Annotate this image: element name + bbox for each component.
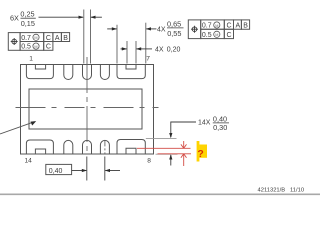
- svg-text:0.7: 0.7: [21, 35, 31, 42]
- pin label 1: [29, 56, 33, 63]
- pin label 8: [147, 158, 151, 165]
- svg-text:B: B: [243, 23, 248, 30]
- svg-text:14: 14: [25, 158, 33, 165]
- svg-text:A: A: [55, 35, 60, 42]
- svg-text:A: A: [236, 23, 241, 30]
- pin 4: [100, 65, 109, 80]
- svg-text:4211321/B: 4211321/B: [258, 187, 286, 193]
- red annotation lines: [137, 141, 191, 166]
- pin 2: [64, 65, 73, 80]
- svg-text:6X: 6X: [10, 14, 19, 23]
- bottom border line: [0, 193, 320, 195]
- svg-text:?: ?: [197, 148, 203, 160]
- package outline: [21, 65, 154, 155]
- pin 8 pad: [117, 140, 145, 155]
- pin 13: [64, 140, 73, 154]
- svg-text:B: B: [63, 35, 68, 42]
- svg-text:0,40: 0,40: [213, 114, 227, 123]
- svg-text:11/10: 11/10: [290, 187, 304, 193]
- svg-text:4X: 4X: [157, 26, 166, 33]
- svg-text:7: 7: [146, 56, 150, 63]
- horizontal center line: [16, 107, 159, 109]
- GD&T frame left: [8, 33, 69, 51]
- svg-text:M: M: [215, 33, 218, 37]
- dimension 6X 0,25/0,15: [10, 9, 102, 63]
- pin 12: [83, 140, 92, 154]
- pin label 7: [146, 56, 150, 63]
- pitch center line x=105.5: [104, 140, 106, 180]
- yellow highlight with question mark: [197, 141, 207, 162]
- svg-text:0,65: 0,65: [167, 19, 181, 28]
- svg-text:4X: 4X: [155, 47, 164, 54]
- svg-text:C: C: [227, 23, 232, 30]
- svg-text:M: M: [215, 24, 218, 28]
- svg-text:14X: 14X: [198, 120, 211, 127]
- dimension 4X 0,20: [121, 41, 181, 64]
- svg-text:M: M: [34, 45, 37, 49]
- pin 11: [100, 140, 109, 154]
- svg-text:0.5: 0.5: [202, 32, 212, 39]
- svg-text:0,20: 0,20: [167, 47, 181, 54]
- thermal pad: [29, 89, 142, 129]
- pin 14 pad: [26, 140, 53, 154]
- dimension 0,40 pitch: [46, 164, 120, 174]
- svg-text:0,15: 0,15: [21, 19, 35, 28]
- dimension 14X 0,40/0,30: [146, 114, 229, 165]
- svg-text:0.7: 0.7: [202, 23, 212, 30]
- title block text: [258, 187, 305, 193]
- svg-text:1: 1: [29, 56, 33, 63]
- svg-text:0.5: 0.5: [21, 44, 31, 51]
- dimension 4X 0,65/0,55: [107, 19, 183, 63]
- GD&T frame right: [188, 20, 249, 39]
- svg-text:0,25: 0,25: [20, 9, 34, 18]
- svg-text:0,55: 0,55: [167, 29, 181, 38]
- svg-text:C: C: [46, 35, 51, 42]
- leader arrow to thermal pad: [0, 121, 36, 134]
- vertical center line: [86, 57, 88, 181]
- svg-text:C: C: [46, 44, 51, 51]
- svg-text:0,30: 0,30: [213, 123, 227, 132]
- svg-text:C: C: [227, 32, 232, 39]
- pin label 14: [25, 158, 33, 165]
- pin 7 pad: [117, 65, 145, 79]
- pin 1 pad: [26, 65, 53, 79]
- pin 3: [83, 65, 92, 80]
- svg-text:M: M: [34, 36, 37, 40]
- svg-text:0,40: 0,40: [49, 168, 63, 175]
- svg-text:8: 8: [147, 158, 151, 165]
